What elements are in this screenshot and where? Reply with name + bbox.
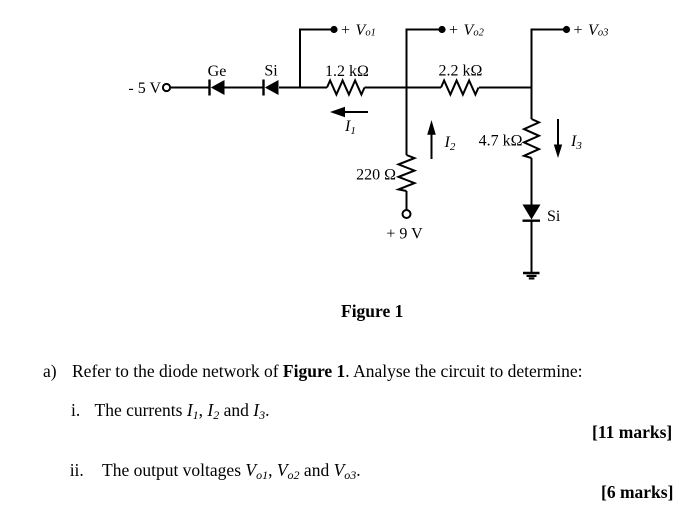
text: [11 marks]: [592, 424, 672, 442]
svg-text:220 Ω: 220 Ω: [356, 167, 396, 184]
terminal: -5V input (open circle): [163, 84, 170, 91]
svg-text:+ Vo3: + Vo3: [574, 22, 609, 39]
wire: resistor R2 to +9V terminal: [406, 191, 408, 210]
node Vo2 (dot): [438, 26, 445, 33]
resistor R2 220 Ohm (vertical zigzag): [399, 155, 415, 191]
wire: resistor R1 to node B (through Vo2 junction): [365, 87, 442, 89]
svg-text:+ Vo1: + Vo1: [341, 22, 376, 39]
resistor R4 4.7 kOhm (vertical zigzag): [524, 119, 539, 158]
svg-text:I1: I1: [344, 118, 356, 137]
terminal: +9V (open circle): [403, 210, 411, 218]
svg-text:4.7 kΩ: 4.7 kΩ: [479, 133, 523, 150]
resistor R1 1.2 kOhm (zigzag): [327, 81, 365, 95]
arrow I3 (current down): [557, 119, 559, 146]
svg-text:+ 9 V: + 9 V: [386, 225, 423, 242]
wire: input from -5V terminal to diode D1: [170, 87, 209, 89]
diode D2 Si (cathode bar): [262, 80, 264, 96]
diode D3 Si (cathode bar): [523, 219, 541, 221]
svg-text:Si: Si: [547, 208, 561, 225]
svg-text:1.2 kΩ: 1.2 kΩ: [325, 63, 369, 80]
wire: node Vo3 branch vertical top: [532, 30, 567, 120]
svg-text:Si: Si: [264, 63, 278, 80]
text line i.: [71, 402, 80, 420]
svg-text:I3: I3: [570, 133, 582, 152]
wire: node Vo1 branch vertical: [300, 30, 334, 88]
node Vo3 (dot): [563, 26, 570, 33]
text line ii.: [70, 462, 84, 480]
wire: Vo2 branch vertical down to resistor R2: [407, 30, 443, 156]
svg-text:+ Vo2: + Vo2: [449, 22, 485, 39]
svg-text:2.2 kΩ: 2.2 kΩ: [439, 63, 483, 80]
resistor R3 2.2 kOhm (zigzag): [441, 81, 479, 95]
text: [6 marks]: [601, 484, 673, 502]
text line a): [43, 363, 57, 381]
wire: between diode D1 and diode D2: [225, 87, 263, 89]
svg-text:- 5 V: - 5 V: [128, 80, 161, 97]
diode D1 Ge (triangle): [211, 80, 225, 95]
caption: Figure 1: [341, 303, 403, 321]
wire: resistor R3 to node C: [479, 87, 532, 89]
wire: diode D2 to resistor R1: [279, 87, 327, 89]
diode D3 Si (triangle pointing down): [523, 205, 541, 220]
diode D2 Si (triangle): [265, 80, 279, 95]
svg-text:I2: I2: [444, 134, 456, 153]
node Vo1 (dot): [330, 26, 337, 33]
svg-text:Ge: Ge: [208, 63, 227, 80]
arrow I2 (current up): [431, 133, 433, 159]
diode D1 Ge (cathode bar): [208, 80, 210, 96]
wire: node C down to resistor R4 (junction): [531, 88, 533, 120]
arrow I1 (current to the left): [343, 111, 368, 113]
wire: diode D3 to ground: [531, 221, 533, 274]
wire: resistor R4 to diode D3: [531, 158, 533, 205]
ground symbol: [523, 273, 540, 278]
